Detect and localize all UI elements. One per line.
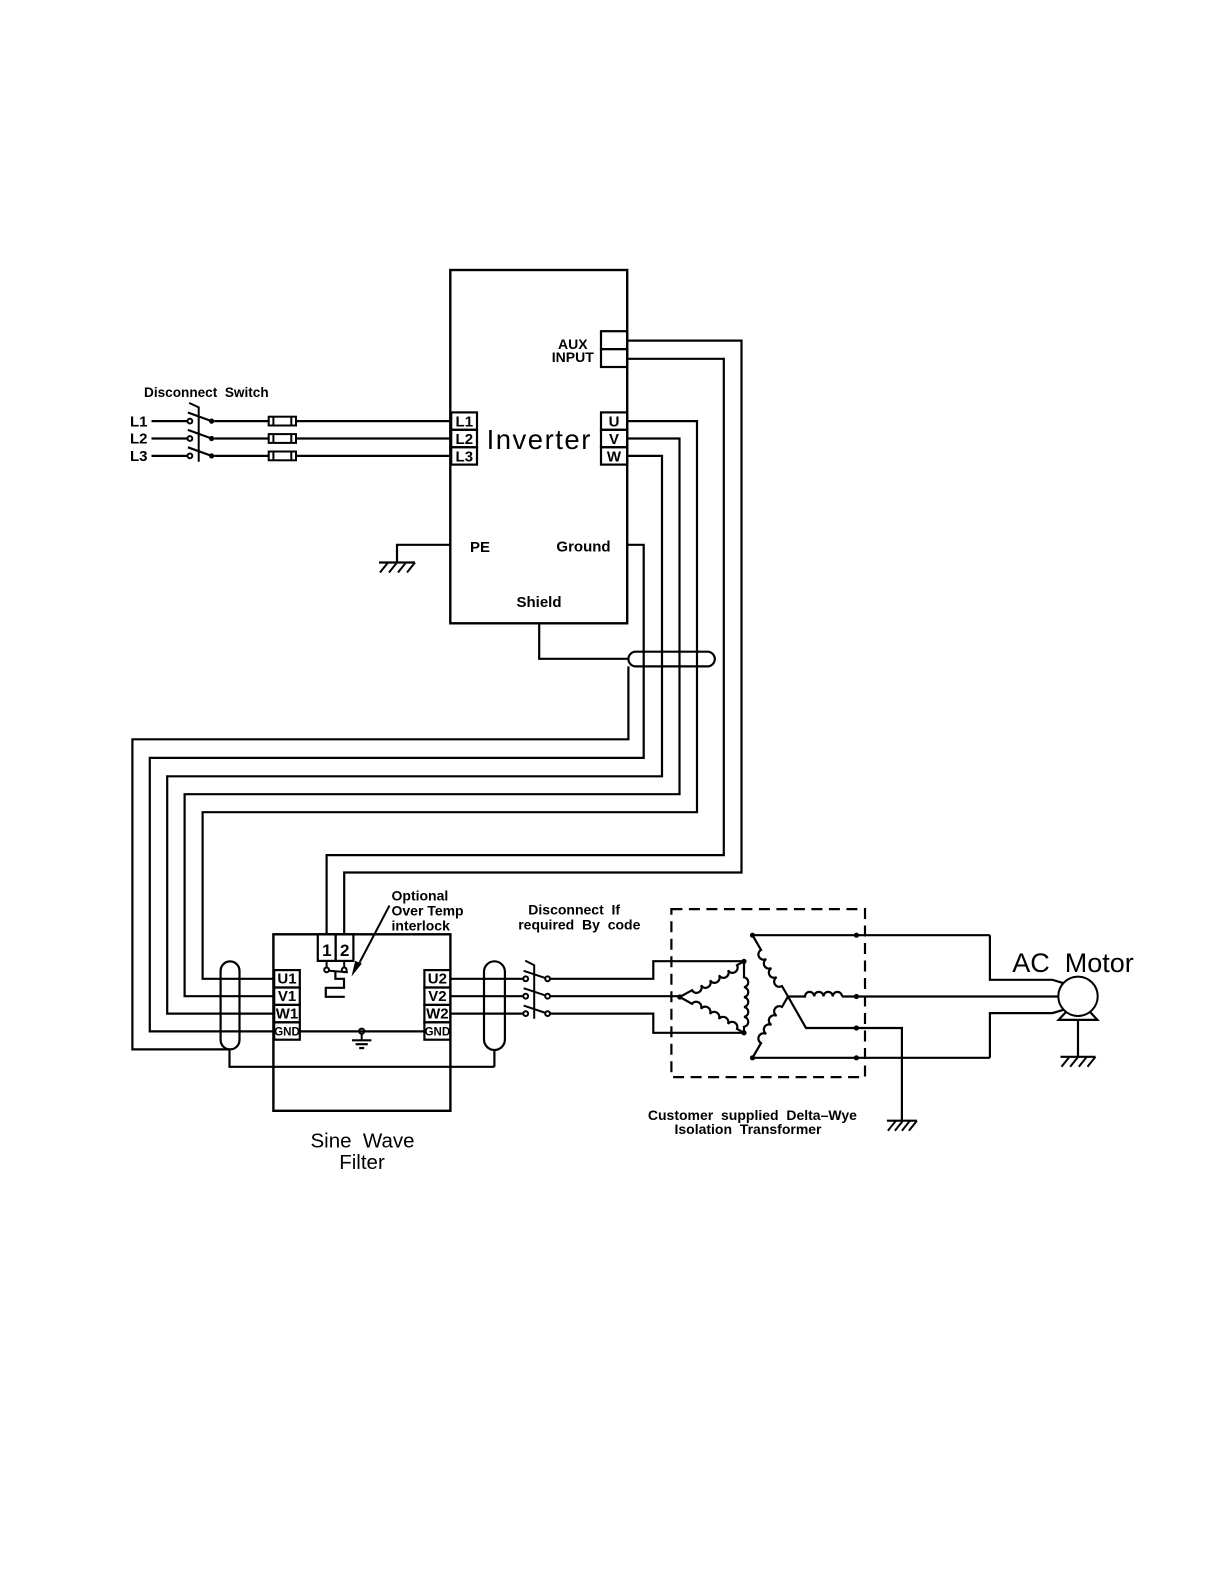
- switch SW2 pole U2 blade: [524, 971, 546, 978]
- svg-text:L1: L1: [130, 413, 148, 430]
- wire L2 fuse to inverter: [296, 437, 451, 439]
- svg-text:AC Motor: AC Motor: [1012, 948, 1134, 978]
- wire AUX-1 to interlock 2: [344, 341, 741, 935]
- switch SW2 pole U2 contacts: [523, 976, 528, 981]
- wire L2 feed: [152, 437, 188, 439]
- wire phase a to motor: [990, 935, 1064, 983]
- terminal L1 (inverter input): [451, 412, 477, 429]
- fuse F3: [269, 452, 296, 461]
- cable shield sleeve (inverter side): [628, 652, 714, 667]
- switch SW2 tie bar: [525, 961, 534, 1019]
- wire output shield bond: [493, 1050, 495, 1067]
- svg-text:U1: U1: [277, 971, 296, 988]
- terminal AUX-2 (bottom aux box): [601, 349, 627, 367]
- wire shield bond to filter bottom bus: [230, 1049, 495, 1066]
- svg-text:V1: V1: [278, 988, 296, 1005]
- svg-text:V2: V2: [428, 988, 446, 1005]
- terminal U2 (filter output): [424, 970, 450, 987]
- wire U2 to disconnect: [450, 978, 523, 980]
- terminal U (inverter output): [601, 412, 627, 429]
- svg-text:L2: L2: [456, 431, 474, 448]
- wire AUX-2 to interlock 1: [327, 359, 724, 935]
- svg-text:Ground: Ground: [556, 539, 610, 556]
- wire W (inverter to filter W1): [167, 456, 662, 1014]
- node junction neutral: [854, 1025, 859, 1030]
- transformer wye winding T1 secondary: [753, 935, 789, 996]
- switch SW1 pole L1 contacts: [188, 419, 193, 424]
- wire W2 to disconnect: [450, 1012, 523, 1014]
- switch SW1 pole L2 contacts: [188, 436, 193, 441]
- terminal W1 (filter input): [274, 1005, 300, 1022]
- fuse F1: [269, 417, 296, 426]
- terminal W2 (filter output): [424, 1005, 450, 1022]
- wire Shield (inverter to cable shield): [539, 623, 628, 659]
- ground transformer neutral (chassis ground): [887, 1120, 917, 1122]
- over-temp interlock element: [326, 972, 345, 997]
- svg-text:Disconnect Switch: Disconnect Switch: [144, 385, 269, 400]
- switch SW1 tie bar: [189, 403, 199, 462]
- svg-text:Isolation Transformer: Isolation Transformer: [674, 1121, 822, 1137]
- svg-text:2: 2: [340, 941, 349, 960]
- svg-text:V: V: [609, 431, 619, 448]
- terminal 1 (interlock): [318, 934, 336, 961]
- switch SW1 pole L2 blade: [188, 430, 212, 439]
- svg-text:GND: GND: [274, 1026, 300, 1038]
- terminal W (inverter output): [601, 447, 627, 464]
- switch SW2 pole V2 contacts: [523, 994, 528, 999]
- switch SW1 pole L3 contacts: [188, 454, 193, 459]
- node junction b: [854, 994, 859, 999]
- node delta vertices: [677, 994, 682, 999]
- svg-text:L1: L1: [456, 414, 474, 431]
- ground motor frame (chassis ground): [1061, 1056, 1096, 1058]
- wire L1 feed: [152, 420, 188, 422]
- svg-text:GND: GND: [425, 1026, 451, 1038]
- wire U2 phase to delta top: [550, 961, 744, 979]
- cable shield sleeve (filter input side): [221, 961, 240, 1049]
- wire L2 to fuse: [214, 437, 269, 439]
- fuse F2: [269, 434, 296, 443]
- switch SW1 pole L3 blade: [188, 447, 212, 456]
- motor mount: [1059, 1011, 1098, 1020]
- terminal L3 (inverter input): [451, 447, 477, 464]
- ground PE (chassis ground): [379, 561, 415, 563]
- wire filter GND bus: [300, 1030, 425, 1032]
- motor M1 (AC Motor): [1058, 977, 1097, 1016]
- svg-text:L3: L3: [130, 448, 148, 465]
- svg-text:1: 1: [322, 941, 331, 960]
- svg-text:required By code: required By code: [518, 917, 640, 933]
- wire shield drain to filter cable shield: [132, 666, 628, 1049]
- wire V2 to disconnect: [450, 995, 523, 997]
- wire secondary phase c: [753, 1057, 990, 1059]
- terminal L2 (inverter input): [451, 430, 477, 447]
- wire secondary phase a: [753, 934, 990, 936]
- wire phase c to motor: [990, 1010, 1064, 1058]
- terminal AUX-1 (top aux box): [601, 331, 627, 349]
- sine wave filter box: [273, 934, 450, 1111]
- svg-text:PE: PE: [470, 539, 490, 556]
- terminal V2 (filter output): [424, 988, 450, 1005]
- transformer delta winding T1 primary: [680, 961, 744, 997]
- earth ground (filter): [359, 1029, 364, 1034]
- over-temp interlock contacts: [324, 968, 329, 973]
- node junction a: [854, 933, 859, 938]
- node wye phase a: [750, 933, 755, 938]
- terminal V1 (filter input): [274, 988, 300, 1005]
- svg-text:W2: W2: [426, 1006, 449, 1023]
- wire L1 fuse to inverter: [296, 420, 451, 422]
- wire L3 feed: [152, 455, 188, 457]
- svg-text:Optional: Optional: [392, 888, 449, 904]
- switch SW2 pole V2 blade: [524, 988, 546, 995]
- wire motor frame to earth: [1077, 1020, 1079, 1057]
- isolation transformer enclosure (dashed): [671, 909, 865, 1077]
- terminal GND (filter output): [424, 1022, 450, 1039]
- wire neutral to earth: [856, 1028, 902, 1121]
- wire W2 phase to delta bottom: [550, 1014, 744, 1033]
- svg-text:Shield: Shield: [516, 594, 561, 611]
- terminal U1 (filter input): [274, 970, 300, 987]
- interlock leader arrow: [358, 906, 390, 967]
- wire V2 phase to delta left: [550, 995, 680, 997]
- svg-text:U: U: [609, 414, 620, 431]
- over-temp interlock blade: [329, 971, 348, 972]
- cable shield sleeve (filter output side): [484, 961, 505, 1050]
- inverter box: [450, 270, 627, 623]
- svg-text:interlock: interlock: [392, 917, 451, 933]
- svg-text:Filter: Filter: [339, 1151, 385, 1174]
- terminal GND (filter input): [274, 1022, 300, 1039]
- wire L3 fuse to inverter: [296, 455, 451, 457]
- wire U (inverter to filter U1): [203, 421, 697, 979]
- wire Ground (inverter to filter GND): [150, 545, 644, 1032]
- wire V (inverter to filter V1): [185, 439, 680, 997]
- svg-text:Sine Wave: Sine Wave: [310, 1130, 414, 1153]
- terminal V (inverter output): [601, 430, 627, 447]
- svg-text:INPUT: INPUT: [552, 349, 594, 365]
- wire wye neutral: [788, 997, 856, 1029]
- svg-text:Over Temp: Over Temp: [392, 903, 464, 919]
- svg-text:W1: W1: [276, 1006, 299, 1023]
- svg-text:U2: U2: [428, 971, 447, 988]
- wire PE: [397, 545, 450, 563]
- wire L1 to fuse: [214, 420, 269, 422]
- node junction c: [854, 1055, 859, 1060]
- svg-text:L3: L3: [456, 448, 474, 465]
- node wye phase c: [750, 1055, 755, 1060]
- switch SW2 pole W2 blade: [524, 1006, 546, 1013]
- svg-text:W: W: [607, 448, 622, 465]
- wire interlock stubs: [326, 961, 328, 968]
- svg-text:L2: L2: [130, 431, 148, 448]
- wire secondary phase b: [842, 995, 1058, 997]
- svg-text:Inverter: Inverter: [487, 424, 592, 455]
- switch SW1 pole L1 blade: [188, 413, 212, 422]
- terminal 2 (interlock): [336, 934, 354, 961]
- wire L3 to fuse: [214, 455, 269, 457]
- svg-text:Disconnect If: Disconnect If: [528, 901, 620, 917]
- switch SW2 pole W2 contacts: [523, 1011, 528, 1016]
